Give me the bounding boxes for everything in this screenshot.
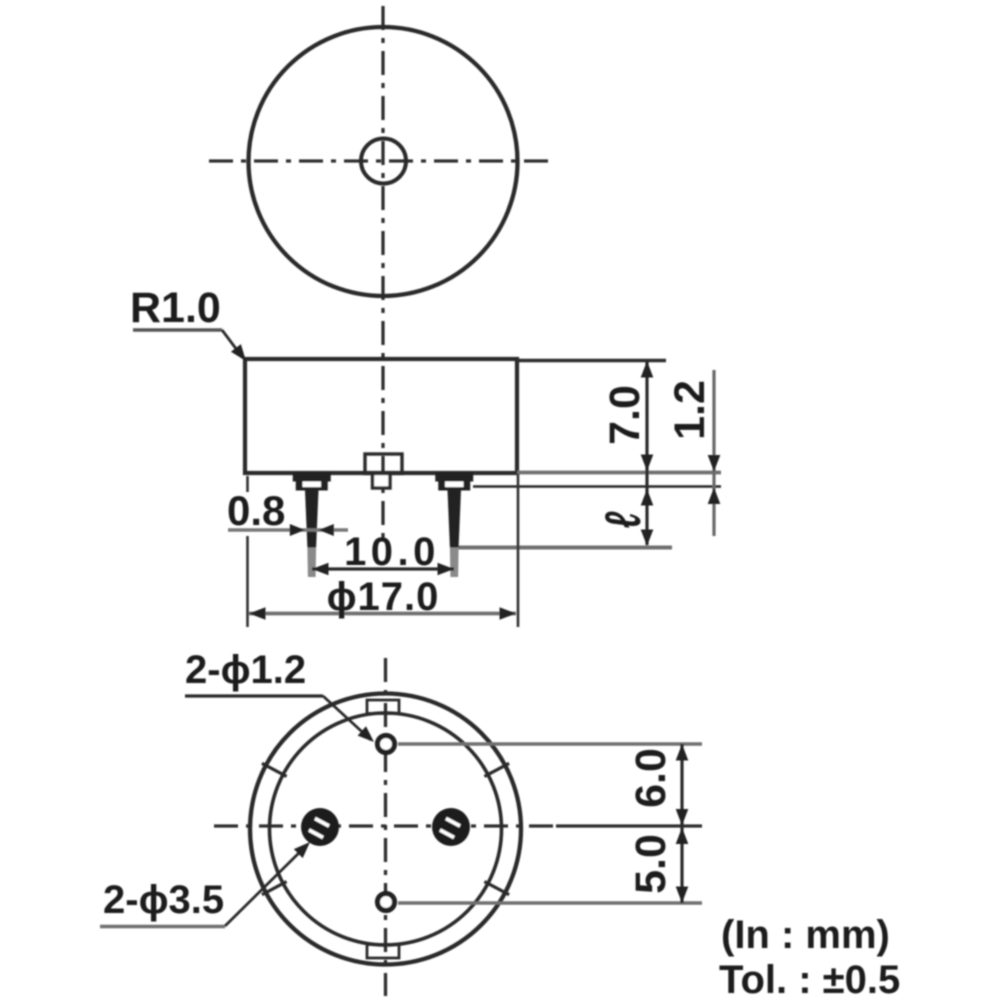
- dimension dia17 arrow left: [249, 607, 266, 620]
- wire 0.8-line: [228, 528, 348, 531]
- node tick-upper-right: [484, 763, 509, 776]
- node tick-lower-right: [484, 882, 509, 895]
- wire 2-dia1.2 leader: [323, 696, 371, 740]
- svg-text:7.0: 7.0: [601, 385, 649, 445]
- node bottomview-horizontal-centerline: [214, 824, 556, 827]
- node sideview-body: [245, 359, 517, 473]
- component hole-top-1.2: [378, 736, 395, 753]
- dimension 0.8 arrow right: [290, 524, 305, 536]
- dimension 5.0 arrow down: [676, 887, 689, 904]
- wire dia17-ext-left-lower: [246, 536, 249, 627]
- wire lead-end-line: [456, 546, 672, 550]
- dimension 6.0 arrow down: [676, 809, 689, 826]
- svg-text:6.0: 6.0: [627, 748, 675, 808]
- dimension dia17-line: [249, 612, 516, 616]
- svg-text:5.0: 5.0: [627, 834, 675, 894]
- dimension 7.0 arrow up: [641, 361, 654, 378]
- component hole-left-3.5: [301, 808, 339, 846]
- dimension 10.0-line: [312, 567, 454, 570]
- dimension dia17 arrow right: [500, 607, 517, 620]
- dimension 2-dia3.5 arrowhead: [294, 842, 310, 858]
- dimension l arrow up: [641, 489, 654, 506]
- wire R1.0 underline: [133, 328, 222, 331]
- svg-text:(In : mm): (In : mm): [721, 913, 890, 957]
- wire dia17-ext-right: [517, 474, 520, 627]
- svg-text:1.2: 1.2: [666, 380, 714, 440]
- wire top-extension-line: [517, 359, 666, 362]
- wire ext-middle: [556, 824, 702, 827]
- component hole-bottom-1.2: [378, 894, 395, 911]
- dimension 1.2-line: [712, 370, 715, 536]
- wire 2-dia3.5 underline: [100, 925, 225, 929]
- wire dia17-ext-left-upper: [246, 476, 249, 492]
- svg-text:2-ϕ1.2: 2-ϕ1.2: [185, 648, 306, 692]
- node topview-center-hole: [361, 139, 406, 184]
- node tick-upper-left: [262, 763, 287, 776]
- component pin-right: [435, 472, 473, 577]
- dimension R1.0 arrowhead: [231, 344, 246, 361]
- node bottomview-vertical-centerline: [384, 658, 387, 996]
- dimension 0.8 arrow left: [319, 524, 334, 536]
- dimension 7.0-and-l-line: [645, 361, 648, 545]
- node bottomview-top-notch: [367, 700, 399, 714]
- svg-text:R1.0: R1.0: [130, 284, 221, 332]
- dimension 1.2 arrow lower: [708, 488, 721, 505]
- dimension 10.0 arrow right: [438, 563, 455, 576]
- node topview-vertical-centerline: [381, 6, 384, 544]
- wire 2-dia3.5 leader: [225, 846, 306, 926]
- dimension 10.0 arrow left: [312, 563, 329, 576]
- node sideview-tab-upper: [365, 454, 402, 474]
- svg-text:2-ϕ3.5: 2-ϕ3.5: [103, 878, 224, 922]
- node bottomview-bottom-notch: [367, 945, 399, 959]
- node bottomview-inner-circle: [270, 713, 502, 945]
- dimension 6.0-5.0-line: [680, 744, 683, 903]
- wire 2-dia1.2 underline: [185, 694, 323, 697]
- node sideview-tab-lower: [373, 474, 391, 489]
- component hole-right-3.5: [432, 808, 470, 846]
- dimension l arrow down: [641, 530, 654, 547]
- node bottomview-outer-circle: [250, 694, 521, 965]
- node tick-lower-left: [262, 882, 287, 895]
- dimension 1.2 arrow upper: [708, 455, 721, 472]
- dimension 2-dia1.2 arrowhead: [358, 726, 374, 742]
- dimension 7.0 arrow down: [641, 455, 654, 472]
- svg-text:ϕ17.0: ϕ17.0: [327, 575, 440, 619]
- svg-text:ℓ: ℓ: [595, 511, 651, 528]
- svg-text:Tol. : ±0.5: Tol. : ±0.5: [719, 958, 900, 1000]
- dimension 5.0 arrow up: [676, 828, 689, 845]
- wire tab-bottom-extension: [473, 485, 721, 488]
- svg-text:10.0: 10.0: [344, 530, 440, 574]
- wire ext-5.0-bottom: [398, 901, 702, 905]
- wire body-bottom-extension: [517, 471, 721, 475]
- wire R1.0 leader: [222, 330, 243, 358]
- node topview-outer-circle: [249, 27, 518, 296]
- dimension 6.0 arrow up: [676, 744, 689, 761]
- component pin-left: [293, 472, 331, 577]
- svg-text:0.8: 0.8: [227, 487, 285, 534]
- wire ext-6.0-top: [398, 742, 702, 746]
- node topview-horizontal-centerline: [209, 159, 556, 162]
